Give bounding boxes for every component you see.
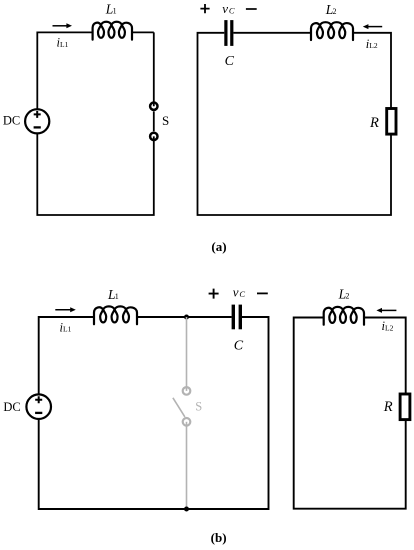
inductor L1 (a) [93, 2, 132, 40]
svg-text:R: R [383, 399, 393, 415]
current arrow iL2 (b) [376, 308, 396, 333]
node junction dot top (b) [184, 315, 189, 320]
inductor L2 (a) [311, 2, 353, 40]
capacitor C (b) [233, 305, 244, 354]
inductor L1 (b) [94, 287, 137, 324]
svg-text:S: S [162, 113, 169, 128]
svg-text:C: C [234, 339, 244, 354]
svg-text:2: 2 [345, 292, 349, 301]
svg-text:DC: DC [3, 114, 20, 128]
wire: circuit (b) right loop [294, 318, 406, 509]
dc voltage source DC (a) [3, 109, 49, 133]
resistor R (a) [369, 109, 396, 135]
wire: circuit (b) left loop [39, 317, 269, 509]
svg-text:C: C [229, 5, 235, 15]
svg-text:C: C [239, 289, 245, 299]
dc voltage source DC (b) [3, 394, 51, 419]
svg-text:1: 1 [115, 292, 119, 301]
current arrow iL2 (a) [363, 24, 382, 51]
svg-text:L1: L1 [63, 325, 72, 334]
inductor L2 (b) [324, 287, 364, 325]
node junction dot bottom (b) [184, 507, 189, 512]
svg-text:v: v [233, 285, 239, 300]
polarity label + vC - (b) [209, 285, 268, 300]
svg-text:2: 2 [333, 7, 337, 16]
resistor R (b) [383, 394, 410, 420]
svg-text:(a): (a) [211, 239, 226, 254]
svg-text:1: 1 [113, 7, 117, 16]
wire: circuit (a) right loop [198, 33, 392, 215]
svg-text:L1: L1 [60, 40, 69, 49]
svg-text:L2: L2 [385, 323, 394, 332]
open switch S (b), grayed out [173, 317, 202, 509]
polarity label + vC - (a) [200, 1, 256, 16]
svg-text:v: v [222, 1, 228, 16]
svg-text:S: S [195, 399, 202, 413]
current arrow iL1 (a) [53, 23, 73, 49]
wire: circuit (a) left loop top/left/bottom [37, 32, 154, 215]
svg-text:L2: L2 [369, 41, 378, 50]
svg-text:R: R [369, 115, 379, 131]
svg-text:C: C [225, 54, 235, 69]
current arrow iL1 (b) [55, 307, 76, 334]
svg-text:DC: DC [3, 400, 20, 414]
svg-text:(b): (b) [211, 530, 227, 545]
switch S (a) closed [150, 103, 169, 141]
capacitor C (a) [225, 20, 235, 69]
